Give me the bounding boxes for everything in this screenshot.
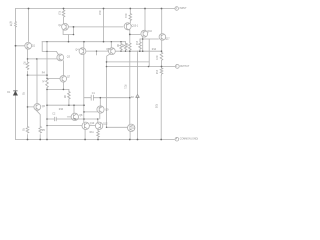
- svg-text:Q9: Q9: [105, 109, 109, 111]
- wire Q6 base: [28, 106, 34, 108]
- svg-text:2: 2: [176, 66, 178, 68]
- wire R14 column: [148, 39, 150, 62]
- svg-text:R5: R5: [42, 130, 46, 132]
- wire top rail: [16, 8, 175, 10]
- resistor R2: [26, 62, 29, 70]
- wire y104.7: [47, 104, 85, 106]
- wire Q5 collector: [110, 42, 112, 48]
- transistor Q5: [109, 48, 116, 55]
- transistor Q3: [57, 54, 64, 61]
- svg-text:R3: R3: [22, 128, 24, 132]
- wire Q7 emitter: [62, 82, 64, 89]
- svg-text:R4: R4: [42, 73, 46, 75]
- svg-text:C2: C2: [52, 114, 56, 116]
- transistor Q16: [141, 30, 148, 37]
- node Q15 emitter: [129, 34, 131, 36]
- node bracket: [46, 41, 47, 42]
- resistor R19 col: [129, 9, 132, 24]
- node line A: [68, 41, 70, 43]
- wire Q9 collector: [99, 98, 101, 107]
- svg-text:R2: R2: [22, 62, 24, 66]
- resistor R3 bottom: [26, 127, 29, 134]
- node base y58.3: [27, 58, 29, 60]
- transistor Q11: [128, 124, 135, 131]
- wire mid-left vertical x47.5: [46, 42, 48, 140]
- wire Q11 base: [107, 126, 128, 128]
- wire Q7 base: [47, 78, 60, 80]
- svg-text:Q12: Q12: [103, 123, 108, 125]
- resistor R13b z2: [139, 39, 142, 51]
- svg-text:R14: R14: [152, 49, 157, 51]
- terminal INPUT: [175, 7, 179, 11]
- svg-text:Q3: Q3: [67, 57, 71, 59]
- transistor Q2: [62, 23, 69, 30]
- svg-text:D2: D2: [131, 97, 135, 99]
- svg-text:1k: 1k: [10, 25, 13, 27]
- svg-text:R8: R8: [63, 95, 65, 99]
- svg-text:1: 1: [176, 8, 178, 10]
- node Q2 emitter: [73, 34, 75, 36]
- svg-text:Q4: Q4: [75, 50, 79, 52]
- wire Q10 base left: [47, 125, 82, 127]
- wire x106 lower: [106, 62, 108, 127]
- node y104.7: [46, 104, 48, 106]
- capacitor C2: [54, 117, 56, 121]
- wire y74 jog: [28, 74, 48, 76]
- wire y50.7 long: [115, 50, 161, 52]
- node Q6 base: [27, 106, 29, 108]
- svg-text:R17: R17: [58, 11, 60, 16]
- svg-text:R20: R20: [155, 104, 157, 109]
- resistor R16: [160, 67, 163, 76]
- node output line: [148, 66, 150, 68]
- svg-text:INPUT: INPUT: [180, 8, 188, 10]
- svg-text:R12: R12: [135, 41, 137, 46]
- wire y38.5 line: [140, 38, 159, 40]
- resistor R1: [15, 22, 17, 28]
- wire Q9 base: [84, 111, 97, 113]
- svg-text:Q6: Q6: [42, 106, 46, 108]
- wire x137 column: [137, 51, 139, 140]
- resistor R4: [46, 79, 49, 90]
- svg-text:R21: R21: [124, 85, 126, 90]
- wire base line y58.3: [28, 58, 58, 60]
- node y50.4: [120, 51, 121, 52]
- wire line A y41.2: [42, 41, 126, 43]
- wire Q8 collector: [73, 105, 75, 113]
- transistor Q8: [71, 113, 78, 120]
- transistor Q15: [124, 23, 131, 30]
- resistor R5 bottom: [39, 127, 42, 134]
- transistor Q12: [95, 122, 102, 129]
- wire Q1 collector: [28, 9, 30, 42]
- svg-text:C1: C1: [92, 93, 96, 95]
- terminal COMMON: [175, 137, 179, 141]
- node y111.4: [83, 111, 85, 113]
- resistor R7: [124, 42, 126, 52]
- wire Q6 emitter: [36, 110, 40, 140]
- wire Q9 emitter: [99, 113, 101, 119]
- wire bracket to Q3: [42, 42, 58, 55]
- wire x106 from rail: [103, 9, 105, 42]
- svg-text:R19: R19: [124, 14, 126, 19]
- svg-text:Q1: Q1: [32, 45, 36, 47]
- svg-text:OUTPUT: OUTPUT: [180, 66, 190, 68]
- node top rail dots: [28, 8, 30, 10]
- resistor R6: [120, 42, 122, 52]
- svg-text:Q10: Q10: [90, 123, 95, 125]
- wire Q4 emitter long vertical: [83, 55, 85, 122]
- wire Q11 emitter: [129, 132, 131, 140]
- svg-text:D1: D1: [7, 92, 11, 94]
- wire Q1 emitter chain: [27, 49, 29, 139]
- wire Q1 base: [16, 45, 25, 47]
- transistor Q10: [82, 122, 89, 129]
- resistor R15: [160, 51, 163, 66]
- svg-text:R3: R3: [22, 92, 24, 96]
- svg-text:Q7: Q7: [67, 77, 71, 79]
- transistor Q1: [25, 42, 32, 49]
- node y41.2 right: [142, 38, 144, 40]
- wire Q4 Q5 base tie: [86, 50, 109, 52]
- svg-text:R15: R15: [155, 56, 157, 61]
- node Q2 base: [73, 26, 75, 28]
- transistor Q17: [159, 34, 166, 41]
- node y118.5: [46, 118, 48, 120]
- node y74: [27, 74, 29, 76]
- wire output line: [107, 66, 176, 68]
- wire Q2 emitter path: [63, 27, 73, 42]
- wire Q2 base / Q15 base line: [68, 26, 123, 28]
- wire Q15 emitter: [130, 30, 140, 35]
- wire Q16 emitter: [142, 37, 144, 52]
- wire Q10 Q12 base tie: [90, 125, 96, 127]
- node Q11 base: [106, 127, 107, 128]
- svg-text:R18: R18: [98, 11, 100, 16]
- wire y89.8: [47, 88, 69, 90]
- svg-text:Q15-1: Q15-1: [132, 26, 139, 28]
- svg-text:R6: R6: [116, 44, 118, 48]
- wire Q17 emitter: [161, 40, 163, 51]
- node bottom rail dots: [27, 139, 29, 141]
- wire base tie stub: [96, 51, 98, 55]
- svg-text:COMMON (GND): COMMON (GND): [180, 139, 198, 141]
- node left rail: [15, 45, 17, 47]
- svg-text:Q11: Q11: [131, 127, 136, 129]
- wire Q10 emitter: [84, 130, 86, 140]
- svg-text:R10: R10: [59, 109, 64, 111]
- wire left rail: [15, 9, 17, 140]
- svg-text:R13: R13: [125, 43, 127, 48]
- wire Q4 collector: [83, 42, 85, 48]
- svg-text:Q17: Q17: [165, 38, 170, 40]
- wire x129.3 long vertical + resistor R13 inline: [129, 34, 132, 124]
- wire Q5 emitter to output: [107, 54, 110, 62]
- wire x160.5 to bottom: [160, 75, 162, 140]
- svg-text:4: 4: [176, 139, 178, 141]
- wire y61.4 line: [107, 62, 150, 67]
- transistor Q6 left-bottom: [34, 104, 41, 111]
- svg-text:Q16: Q16: [147, 31, 152, 33]
- diode D1 (zener): [13, 91, 17, 95]
- terminal OUTPUT: [175, 65, 179, 69]
- svg-text:R11: R11: [90, 132, 95, 134]
- diode D2: [136, 95, 139, 99]
- transistor Q9: [97, 106, 104, 113]
- svg-text:Q8: Q8: [79, 115, 83, 117]
- wire bottom rail: [16, 139, 175, 141]
- node C1 line: [100, 97, 102, 99]
- resistor R17 top: [62, 9, 65, 24]
- wire Q16 collector: [144, 9, 146, 31]
- transistor Q7: [60, 76, 67, 83]
- svg-text:R16: R16: [155, 70, 157, 75]
- transistor Q4: [79, 48, 86, 55]
- svg-text:1k: 1k: [42, 80, 44, 83]
- wire Q3 emitter to Q7: [63, 61, 65, 76]
- node Q7 base: [46, 78, 47, 79]
- wire Q8 base stub: [67, 116, 71, 118]
- capacitor C1: [84, 95, 130, 100]
- wire Q12 emitter + resistor R11: [97, 130, 100, 140]
- wire y118.5: [47, 118, 97, 120]
- wire Q17 collector: [161, 9, 163, 34]
- wire x36 collector line: [36, 59, 38, 104]
- node y90.5: [46, 74, 48, 76]
- wire Q12 collector: [97, 119, 99, 122]
- resistor R8: [68, 89, 71, 105]
